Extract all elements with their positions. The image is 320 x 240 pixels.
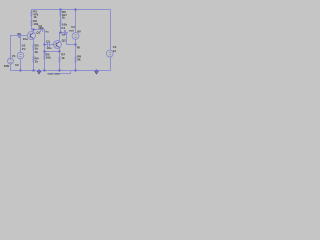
svg-text:10u: 10u xyxy=(38,26,43,30)
svg-text:vc: vc xyxy=(45,29,49,33)
svg-text:Q1: Q1 xyxy=(36,31,40,35)
svg-text:Rl: Rl xyxy=(77,45,80,49)
svg-text:10u: 10u xyxy=(46,46,51,50)
svg-text:1k: 1k xyxy=(35,59,39,63)
svg-text:12: 12 xyxy=(113,49,117,53)
svg-text:V3: V3 xyxy=(71,25,75,29)
svg-text:10u: 10u xyxy=(23,37,28,41)
svg-text:C3: C3 xyxy=(46,39,50,43)
svg-text:2k: 2k xyxy=(35,50,39,54)
svg-text:V1: V1 xyxy=(12,54,16,58)
svg-text:10k: 10k xyxy=(46,55,51,59)
svg-text:Q2: Q2 xyxy=(62,38,66,42)
svg-text:8k: 8k xyxy=(77,57,81,61)
svg-text:C1: C1 xyxy=(17,32,21,36)
svg-text:1u: 1u xyxy=(61,32,65,36)
svg-text:1k: 1k xyxy=(61,56,65,60)
svg-text:C4: C4 xyxy=(61,26,65,30)
svg-text:.tran 10m: .tran 10m xyxy=(47,72,60,76)
svg-text:SIN: SIN xyxy=(4,64,10,68)
svg-text:1k: 1k xyxy=(61,16,65,20)
